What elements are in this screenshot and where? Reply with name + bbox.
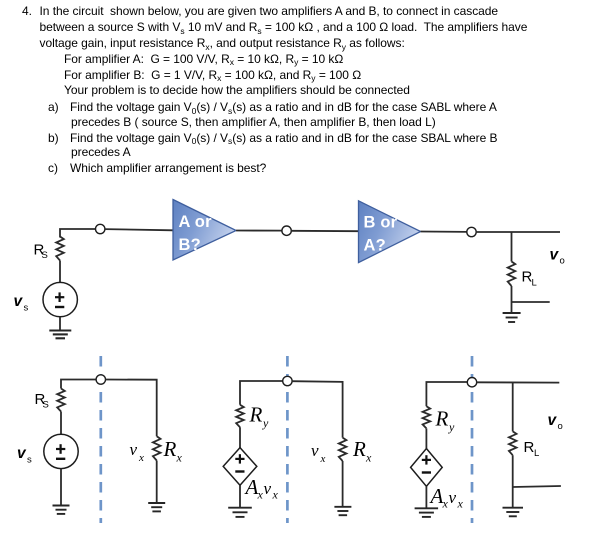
svg-text:A: A bbox=[244, 475, 259, 499]
plus sign in source (main) bbox=[55, 296, 64, 298]
wire: RL top (sub3) bbox=[512, 383, 514, 432]
wire: Rx to ground (sub2) bbox=[342, 461, 344, 507]
svg-text:x: x bbox=[138, 452, 144, 464]
svg-text:R: R bbox=[524, 439, 535, 456]
svg-text:o: o bbox=[560, 256, 565, 267]
svg-text:x: x bbox=[457, 497, 464, 511]
wire: source Vs top-left corner to node 1 bbox=[60, 229, 96, 238]
svg-text:R: R bbox=[435, 407, 449, 431]
dashed boundary line 1 bbox=[99, 356, 102, 523]
wire: RS to source (sub1) bbox=[60, 412, 62, 435]
svg-text:o: o bbox=[558, 421, 563, 432]
dashed boundary line 3 bbox=[471, 356, 474, 523]
wire: sub1 top rail bbox=[61, 380, 96, 389]
ground (sub3 RL) bbox=[503, 507, 524, 509]
minus sign in source (sub1) bbox=[56, 458, 65, 460]
node sub1 bbox=[96, 375, 105, 384]
ground (sub1 source) bbox=[53, 505, 70, 507]
svg-text:x: x bbox=[320, 453, 326, 465]
ground (main RL) bbox=[503, 312, 521, 314]
svg-text:A?: A? bbox=[364, 236, 386, 254]
resistor RS (sub1) bbox=[57, 389, 65, 412]
svg-text:y: y bbox=[448, 420, 455, 434]
svg-text:v: v bbox=[264, 479, 272, 498]
svg-text:L: L bbox=[534, 448, 539, 459]
svg-text:x: x bbox=[442, 497, 449, 511]
svg-text:y: y bbox=[262, 416, 269, 430]
svg-text:v: v bbox=[548, 412, 558, 429]
wire: Ry to dependent source (sub2) bbox=[239, 427, 241, 447]
resistor RS (main) bbox=[56, 237, 64, 261]
wire: node 1 to amplifier 1 input bbox=[105, 229, 173, 230]
svg-text:R: R bbox=[249, 403, 263, 427]
node 1 (main) bbox=[96, 224, 105, 233]
wire: RL top (main) bbox=[511, 232, 513, 262]
ground (main source) bbox=[49, 329, 71, 331]
wire: Rx to ground (sub1) bbox=[156, 461, 158, 504]
wire: diamond to ground (sub3) bbox=[425, 486, 427, 508]
wire: diamond to ground (sub2) bbox=[239, 485, 241, 508]
svg-text:S: S bbox=[42, 250, 48, 261]
wire: RL bottom to ground (sub3) bbox=[512, 455, 514, 508]
minus sign in source (main) bbox=[55, 306, 64, 308]
svg-text:x: x bbox=[272, 488, 279, 502]
source vs (main) circle bbox=[43, 282, 77, 316]
svg-text:x: x bbox=[176, 451, 183, 465]
svg-text:x: x bbox=[365, 451, 372, 465]
wire: sub3 top rail bbox=[426, 382, 467, 406]
wire: sub3 node to output rail bbox=[476, 381, 559, 383]
wire: sub2 node to Rx branch bbox=[292, 381, 343, 437]
svg-text:x: x bbox=[257, 488, 264, 502]
svg-text:v: v bbox=[311, 441, 319, 460]
svg-text:v: v bbox=[14, 293, 24, 310]
resistor Rx (sub2) bbox=[339, 438, 347, 461]
dependent source diamond (sub2) bbox=[223, 448, 257, 486]
svg-text:s: s bbox=[24, 303, 29, 314]
wire: source to ground (sub1) bbox=[60, 469, 62, 506]
wire: RL bottom to ground (main) bbox=[511, 286, 513, 313]
svg-text:v: v bbox=[17, 445, 27, 462]
wire: stub right of RL bottom (main) bbox=[512, 301, 550, 303]
plus sign in diamond (sub3) bbox=[422, 459, 431, 461]
amplifier U1 "A or B?" triangle bbox=[173, 200, 236, 261]
ground (sub1 Rx) bbox=[148, 502, 165, 504]
resistor Ry (sub3) bbox=[423, 406, 431, 428]
wire: U1 output to node 2 bbox=[236, 230, 282, 232]
source vs (sub1) circle bbox=[44, 434, 78, 468]
node sub2 bbox=[283, 376, 292, 385]
node sub3 bbox=[467, 378, 476, 387]
svg-text:R: R bbox=[163, 437, 177, 461]
svg-text:A or: A or bbox=[179, 213, 213, 231]
minus sign in diamond (sub2) bbox=[235, 470, 244, 472]
wire: sub2 top rail bbox=[240, 381, 283, 405]
wire: sub1 node to Rx branch bbox=[105, 380, 157, 437]
wire: U2 output to node 3 bbox=[421, 231, 467, 233]
ground (sub2 source) bbox=[228, 507, 252, 509]
resistor RL (main) bbox=[508, 262, 516, 287]
svg-text:v: v bbox=[550, 247, 560, 264]
wire: source bottom to ground bbox=[59, 317, 61, 331]
plus sign in source (sub1) bbox=[56, 448, 65, 450]
resistor Rx (sub1) bbox=[153, 436, 161, 460]
node 3 (main) bbox=[467, 227, 476, 236]
svg-text:B or: B or bbox=[364, 214, 398, 232]
dashed boundary line 2 bbox=[286, 356, 289, 523]
svg-text:A: A bbox=[429, 484, 444, 508]
svg-text:R: R bbox=[352, 437, 366, 461]
wire: Ry to dependent source (sub3) bbox=[425, 428, 427, 448]
ground (sub3 source) bbox=[415, 507, 439, 509]
svg-text:L: L bbox=[532, 278, 537, 289]
ground (sub2 Rx) bbox=[334, 506, 351, 508]
resistor Ry (sub2) bbox=[236, 405, 244, 428]
plus sign in diamond (sub2) bbox=[235, 458, 244, 460]
node 2 (main) bbox=[282, 226, 291, 235]
svg-text:B?: B? bbox=[179, 236, 201, 254]
wire: node 3 to output, past RL junction bbox=[476, 231, 560, 233]
svg-text:v: v bbox=[449, 488, 457, 507]
wire: node 2 to amplifier 2 input bbox=[291, 230, 358, 232]
wire: RS to source top bbox=[59, 261, 61, 283]
minus sign in diamond (sub3) bbox=[422, 471, 431, 473]
dependent source diamond (sub3) bbox=[411, 449, 443, 487]
svg-text:s: s bbox=[27, 455, 32, 466]
wire: stub right of RL bottom (sub3) bbox=[513, 486, 561, 487]
amplifier U2 "B or A?" triangle bbox=[359, 201, 421, 263]
svg-text:v: v bbox=[130, 440, 138, 459]
resistor RL (sub3) bbox=[509, 431, 517, 455]
svg-text:S: S bbox=[43, 400, 49, 411]
